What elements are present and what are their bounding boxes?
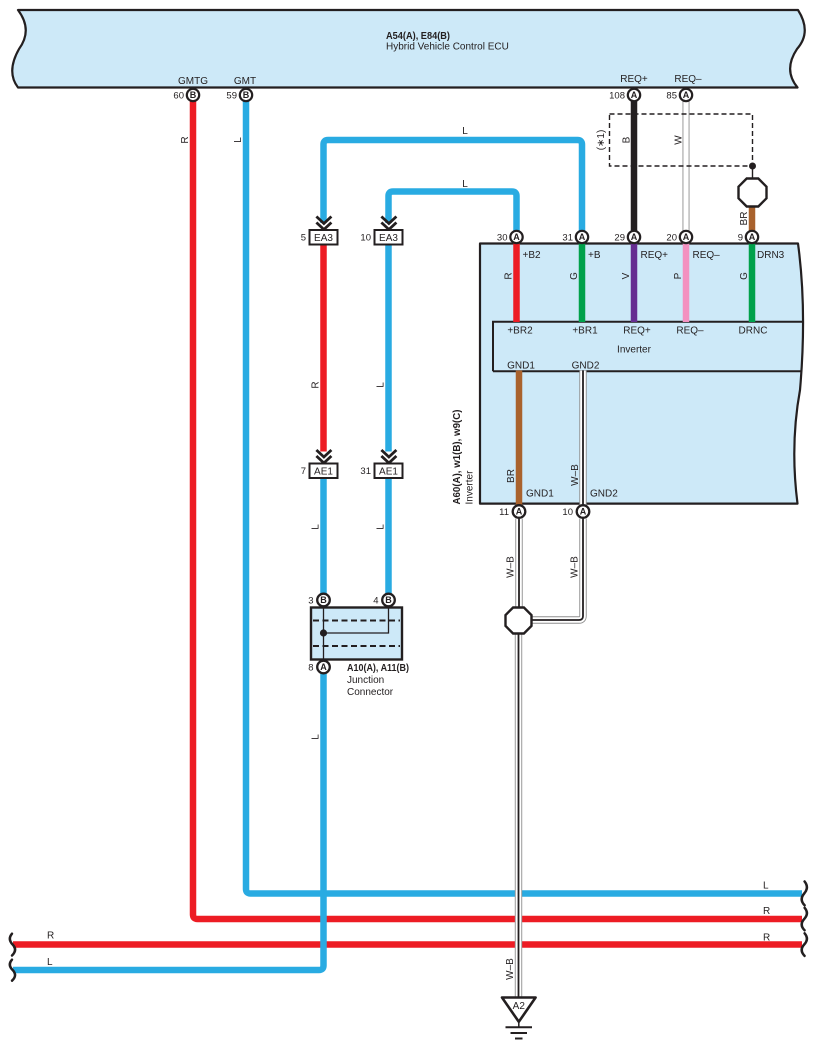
svg-text:R: R [180,136,191,143]
svg-text:AE1: AE1 [314,467,333,478]
svg-text:REQ+: REQ+ [641,250,669,261]
svg-text:7: 7 [301,466,306,477]
svg-text:Hybrid Vehicle Control ECU: Hybrid Vehicle Control ECU [386,42,509,53]
svg-text:W–B: W–B [505,958,516,980]
svg-text:Connector: Connector [347,687,394,698]
svg-text:A: A [631,232,638,242]
svg-text:A: A [516,507,523,517]
svg-text:A: A [579,232,586,242]
svg-text:29: 29 [614,233,625,244]
svg-text:A: A [513,232,520,242]
svg-text:10: 10 [360,233,371,244]
svg-text:A54(A), E84(B): A54(A), E84(B) [386,31,450,42]
svg-text:A60(A), w1(B), w9(C): A60(A), w1(B), w9(C) [452,410,463,505]
svg-text:V: V [621,272,632,279]
svg-text:A: A [631,90,638,100]
svg-text:GND2: GND2 [590,489,618,500]
svg-text:R: R [504,272,515,279]
svg-text:10: 10 [562,507,573,518]
svg-text:(∗1): (∗1) [596,130,607,151]
svg-text:L: L [462,179,468,190]
svg-text:59: 59 [226,91,237,102]
svg-text:G: G [569,272,580,280]
svg-text:B: B [622,136,633,143]
svg-text:R: R [763,906,770,917]
svg-text:8: 8 [308,663,313,674]
svg-text:A2: A2 [513,1001,526,1012]
svg-text:31: 31 [562,233,573,244]
svg-text:BR: BR [506,469,517,483]
svg-text:L: L [233,137,244,143]
svg-text:EA3: EA3 [314,233,333,244]
svg-text:GND1: GND1 [507,361,535,372]
svg-text:A: A [683,90,690,100]
svg-text:DRNC: DRNC [739,326,768,337]
svg-text:G: G [739,272,750,280]
svg-text:60: 60 [173,91,184,102]
svg-text:R: R [311,381,322,388]
svg-text:R: R [47,931,54,942]
svg-text:30: 30 [497,233,508,244]
svg-text:+BR1: +BR1 [572,326,598,337]
svg-text:L: L [763,881,769,892]
svg-text:BR: BR [739,212,750,226]
svg-text:EA3: EA3 [379,233,398,244]
svg-text:Junction: Junction [347,675,384,686]
svg-text:+B2: +B2 [523,250,542,261]
svg-text:REQ–: REQ– [676,326,704,337]
svg-text:5: 5 [301,233,306,244]
svg-text:4: 4 [373,596,378,607]
svg-text:AE1: AE1 [379,467,398,478]
svg-text:REQ–: REQ– [674,74,702,85]
svg-text:B: B [385,595,392,605]
svg-text:A10(A), A11(B): A10(A), A11(B) [347,663,409,674]
svg-text:3: 3 [308,596,313,607]
svg-text:GMTG: GMTG [178,76,208,87]
svg-text:B: B [190,90,197,100]
svg-text:20: 20 [666,233,677,244]
svg-text:REQ–: REQ– [693,250,721,261]
svg-text:A: A [683,232,690,242]
svg-text:A: A [749,232,756,242]
svg-text:W–B: W–B [506,556,517,578]
svg-text:L: L [462,126,468,137]
svg-text:+B: +B [588,250,601,261]
svg-text:Inverter: Inverter [617,345,652,356]
svg-text:A: A [580,507,587,517]
svg-text:P: P [673,272,684,279]
svg-text:DRN3: DRN3 [757,250,785,261]
svg-text:L: L [311,524,322,530]
svg-text:L: L [376,382,387,388]
svg-text:W–B: W–B [570,556,581,578]
svg-text:11: 11 [499,507,509,518]
svg-text:REQ+: REQ+ [623,326,651,337]
svg-text:B: B [243,90,250,100]
svg-text:L: L [311,734,322,740]
svg-text:GND1: GND1 [526,489,554,500]
svg-text:9: 9 [738,233,743,244]
svg-text:A: A [320,662,327,672]
svg-text:85: 85 [666,91,677,102]
svg-text:GMT: GMT [234,76,256,87]
svg-text:+BR2: +BR2 [507,326,533,337]
svg-text:L: L [376,524,387,530]
svg-text:W: W [674,135,685,145]
svg-text:L: L [47,957,53,968]
svg-text:108: 108 [609,91,625,102]
svg-text:31: 31 [360,466,371,477]
svg-text:GND2: GND2 [572,361,600,372]
svg-text:Inverter: Inverter [465,470,476,505]
svg-text:B: B [320,595,327,605]
svg-text:R: R [763,933,770,944]
svg-text:REQ+: REQ+ [620,74,648,85]
svg-text:W–B: W–B [570,464,581,486]
